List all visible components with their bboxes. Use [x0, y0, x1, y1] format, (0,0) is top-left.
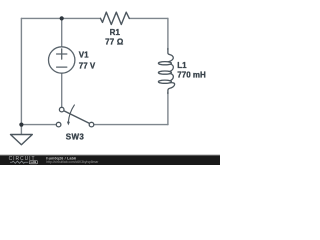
svg-text:V1: V1: [79, 51, 89, 60]
wire left rail: [20, 18, 22, 134]
wire bottom rail right: [94, 124, 168, 126]
logo LAB box: [29, 161, 37, 164]
wire V1 stem bottom: [61, 73, 63, 107]
switch SW3 toggle arrow: [68, 105, 74, 122]
switch SW3 terminal top: [59, 107, 64, 112]
svg-text:SW3: SW3: [66, 133, 85, 142]
inductor L1 connector 2-3: [170, 74, 174, 81]
voltage source V1: [49, 47, 75, 73]
svg-text:R1: R1: [110, 28, 121, 37]
wire top rail right segment: [129, 17, 168, 19]
svg-text:770 mH: 770 mH: [177, 70, 206, 79]
inductor L1 connector 1-2: [170, 64, 174, 71]
inductor L1 loop 2: [158, 71, 171, 74]
wire right rail top: [167, 18, 169, 49]
wire top rail left segment: [21, 17, 100, 19]
ground: [11, 135, 33, 145]
logo resistor zigzag: [10, 161, 28, 163]
inductor L1 exit hook: [168, 83, 175, 94]
inductor L1 loop 3: [158, 80, 171, 83]
resistor R1: [101, 12, 130, 24]
svg-text:77 Ω: 77 Ω: [105, 37, 124, 46]
svg-text:LAB: LAB: [31, 160, 37, 164]
switch SW3 terminal left: [56, 122, 61, 127]
wire right rail bottom: [167, 93, 169, 125]
switch SW3 terminal right: [89, 122, 94, 127]
wire bottom rail left: [21, 124, 56, 126]
inductor L1 entry hook: [168, 49, 173, 62]
svg-text:http://circuitlab.com/c6K3kyIs: http://circuitlab.com/c6K3kyIsp8mar: [46, 160, 99, 164]
junction node at V1 top: [60, 16, 64, 20]
junction node at ground: [19, 123, 23, 127]
wire V1 stem top: [61, 18, 63, 46]
inductor L1 loop 1: [158, 62, 171, 65]
svg-text:L1: L1: [177, 61, 187, 70]
switch SW3 lever: [64, 111, 89, 124]
svg-text:77 V: 77 V: [79, 62, 96, 71]
